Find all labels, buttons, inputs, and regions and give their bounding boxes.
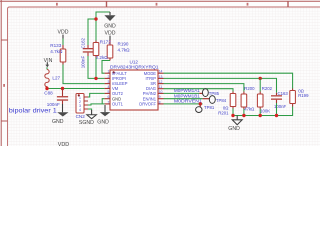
- supply pin VIN: [44, 58, 53, 67]
- svg-text:PH/IN2: PH/IN2: [143, 91, 157, 96]
- wire GND rail (right cluster): [233, 103, 293, 116]
- svg-text:GND: GND: [97, 120, 109, 126]
- svg-text:DRVOFF: DRVOFF: [139, 102, 156, 107]
- node junction L27/VM: [45, 87, 48, 90]
- wire EN/IN1 net: [164, 98, 203, 100]
- svg-text:VDD: VDD: [105, 30, 116, 36]
- svg-text:bipolar driver 1: bipolar driver 1: [9, 107, 57, 114]
- svg-text:GND: GND: [228, 126, 240, 132]
- svg-text:8: 8: [159, 100, 161, 104]
- svg-text:4: 4: [108, 85, 110, 89]
- svg-text:SGND: SGND: [79, 120, 94, 126]
- svg-text:5: 5: [108, 90, 110, 94]
- wire ITRIP net: [164, 78, 277, 92]
- wire SR net: [164, 84, 244, 92]
- svg-text:3: 3: [108, 80, 110, 84]
- wire GND net top (IPROPI RC to GND): [88, 12, 110, 45]
- svg-text:R190: R190: [118, 41, 129, 46]
- wire R202 drop: [259, 78, 261, 91]
- wire OUT1 net: [88, 104, 105, 105]
- ground GND (mid, chip): [97, 105, 110, 126]
- wire DRVOFF net: [164, 103, 203, 105]
- pin names U12 right: [139, 71, 156, 107]
- svg-text:100K: 100K: [260, 108, 270, 113]
- svg-text:11: 11: [159, 85, 163, 89]
- svg-text:R200: R200: [244, 86, 255, 91]
- svg-text:CN2: CN2: [76, 114, 86, 119]
- svg-text:TP81: TP81: [204, 105, 215, 110]
- svg-text:C163: C163: [278, 91, 289, 96]
- svg-text:6: 6: [108, 95, 110, 99]
- svg-text:4.7kΩ: 4.7kΩ: [118, 47, 131, 52]
- svg-text:VDD: VDD: [58, 29, 69, 35]
- svg-text:R201: R201: [218, 110, 229, 115]
- wire OUT2 net: [88, 93, 105, 97]
- node junction IPROPI-RC top: [94, 17, 97, 20]
- wire VM net: [47, 88, 105, 89]
- wire PH/IN2 net: [164, 92, 200, 94]
- pin names U12 left: [112, 71, 128, 107]
- svg-text:GND: GND: [104, 23, 116, 29]
- svg-text:7: 7: [108, 100, 110, 104]
- power VDD (top, feeds R190): [105, 30, 116, 40]
- capacitor C162 100nF: [80, 37, 93, 68]
- svg-text:C88: C88: [44, 91, 53, 96]
- svg-text:OUT2: OUT2: [112, 91, 124, 96]
- wire IPROPI net: [88, 56, 105, 78]
- svg-text:L27: L27: [52, 76, 60, 81]
- wire VDD to R133: [62, 39, 64, 46]
- node junction C88/VM: [61, 87, 64, 90]
- resistor R199 0Ohm: [290, 89, 309, 107]
- svg-text:M0DRVEN1: M0DRVEN1: [174, 99, 203, 104]
- svg-text:VIN: VIN: [44, 58, 53, 64]
- node junction rail R201: [231, 114, 234, 117]
- node junction rail R202: [259, 114, 262, 117]
- resistor R200 47kOhm: [241, 86, 255, 111]
- pin stubs U12 left: [105, 73, 110, 104]
- svg-text:R172: R172: [100, 39, 111, 44]
- resistor R201 0Ohm: [218, 92, 236, 116]
- ground SGND: [79, 110, 97, 126]
- test point TP81: [196, 102, 215, 112]
- ground GND (below C88): [52, 104, 69, 125]
- test point TP84: [203, 96, 227, 104]
- pin numbers U12 right: [159, 70, 163, 105]
- svg-text:14: 14: [159, 70, 163, 74]
- ground GND (right cluster): [228, 116, 242, 132]
- node junction IPROPI: [94, 77, 97, 80]
- test point TP85: [199, 89, 219, 97]
- resistor R133 4.7kOhm: [50, 43, 66, 65]
- svg-text:47kΩ: 47kΩ: [244, 106, 255, 111]
- node junction ITRIP/R202: [259, 77, 262, 80]
- svg-text:100nF: 100nF: [47, 102, 60, 107]
- inductor L27: [45, 67, 61, 87]
- svg-text:100nF: 100nF: [80, 56, 85, 69]
- svg-text:13: 13: [159, 75, 163, 79]
- svg-text:TP84: TP84: [216, 98, 227, 103]
- connector CN2: [76, 94, 88, 120]
- wire SGND stub: [88, 109, 92, 110]
- svg-text:9: 9: [159, 95, 161, 99]
- svg-text:12: 12: [159, 80, 163, 84]
- wire DIAG net: [164, 89, 234, 92]
- node junction rail R200: [242, 114, 245, 117]
- ground GND (top): [104, 12, 116, 29]
- svg-text:TP85: TP85: [209, 91, 220, 96]
- svg-text:VDD: VDD: [58, 142, 69, 146]
- wire MODE net: [164, 73, 293, 88]
- svg-text:M0PWM1A1: M0PWM1A1: [174, 88, 201, 93]
- node junction rail C163: [275, 114, 278, 117]
- svg-text:4.7kΩ: 4.7kΩ: [50, 49, 63, 54]
- svg-text:4: 4: [79, 108, 81, 112]
- capacitor C163 100nF: [271, 91, 288, 109]
- op-amp driver IC U12 DRV8243HQRXYRQ1: [110, 59, 159, 110]
- wire nSLEEP net: [63, 65, 105, 84]
- svg-text:10: 10: [159, 90, 163, 94]
- svg-text:GND: GND: [52, 119, 64, 125]
- svg-text:1: 1: [108, 70, 110, 74]
- power VDD (left, feeds R133): [58, 29, 69, 38]
- pin stubs U12 right: [158, 73, 164, 104]
- svg-text:R133: R133: [50, 43, 61, 48]
- svg-text:C162: C162: [80, 37, 85, 48]
- resistor R172 2.2kOhm: [93, 39, 111, 60]
- svg-text:100nF: 100nF: [274, 104, 287, 109]
- wire GND pin net: [102, 99, 104, 104]
- resistor R190 4.7kOhm: [107, 40, 130, 61]
- svg-text:2: 2: [108, 75, 110, 79]
- svg-text:R202: R202: [262, 86, 273, 91]
- svg-text:OUT1: OUT1: [112, 102, 124, 107]
- wire nFAULT net: [102, 61, 110, 74]
- resistor R202 100K: [257, 86, 272, 114]
- svg-text:DRV8243HQRXYRQ1: DRV8243HQRXYRQ1: [110, 65, 159, 70]
- pin numbers U12 left: [108, 70, 110, 105]
- svg-text:R199: R199: [298, 93, 309, 98]
- capacitor C88 100nF: [44, 89, 68, 107]
- svg-text:2.2kΩ: 2.2kΩ: [96, 55, 109, 60]
